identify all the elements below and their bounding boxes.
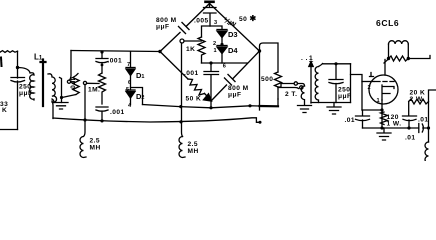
svg-text:1 W.: 1 W. [387, 121, 402, 128]
svg-text:1: 1 [377, 98, 380, 104]
wire bottom bus B [53, 118, 260, 123]
wire bus to C8 [408, 127, 419, 129]
wire shield right side [350, 64, 352, 103]
capacitor C-apex .005 [204, 8, 217, 27]
inductor RFC2 2.5MH [179, 137, 185, 158]
svg-text:5: 5 [126, 87, 129, 93]
svg-text:1M.: 1M. [88, 87, 100, 94]
svg-text:D4: D4 [228, 46, 238, 55]
wire 500 bottom continue down [277, 87, 279, 99]
transformer T1 primary winding [30, 73, 34, 100]
transformer T1 core slug [41, 60, 46, 107]
wire suppressor output [408, 56, 430, 59]
node dot bus B at x102 [100, 119, 103, 122]
wire D4 bottom [221, 54, 223, 64]
wire cathode bus [363, 127, 409, 129]
svg-text:6: 6 [128, 80, 131, 86]
parasitic suppressor resistor [389, 56, 409, 61]
resistor 1K [198, 37, 205, 63]
inductor L2 secondary [315, 64, 322, 103]
wire diamond edge left-bottom upper part [160, 52, 188, 80]
resistor 1M [99, 73, 106, 104]
svg-text:2.5: 2.5 [188, 141, 199, 148]
node apex blob [206, 0, 214, 3]
wire apex stub [209, 2, 211, 7]
wire ground vertical [60, 78, 62, 103]
node dot line A x211 [209, 106, 212, 109]
resistor 50K on edge [188, 79, 205, 95]
wire input bottom to edge [0, 129, 18, 131]
resistor 500 [275, 72, 282, 87]
diode D1 [126, 67, 135, 69]
capacitor C8 .01 [419, 124, 429, 133]
diode D2 [126, 89, 135, 91]
wire sub bus [311, 102, 351, 104]
tube V1 6CL6 envelope [369, 75, 398, 104]
svg-text:MH: MH [90, 145, 101, 152]
svg-text:470: 470 [69, 77, 76, 89]
svg-text:2 T.: 2 T. [285, 91, 297, 98]
wire cathode lead down [381, 100, 383, 128]
svg-text:. .: . . [301, 55, 308, 62]
node circle 1K input [180, 39, 184, 43]
wire grid stub into tube [362, 81, 374, 83]
tube pin3 tick [370, 73, 374, 77]
node input junction [16, 66, 19, 69]
wire jog apex-cap to D3 [210, 26, 222, 29]
wire line A [143, 105, 279, 108]
node dot cathode tap [380, 108, 383, 111]
wire diamond edge left-top with cap gap [160, 4, 210, 52]
svg-text:1: 1 [309, 55, 313, 62]
capacitor C6 .01 [356, 116, 370, 128]
node jack circle right [83, 81, 86, 84]
node jack circle left [67, 80, 70, 83]
capacitor C-edge1 800uuF [179, 23, 190, 34]
svg-text:1: 1 [214, 48, 217, 54]
wire terminal 1 arrow [310, 66, 312, 103]
parasitic suppressor coil [389, 41, 409, 44]
node dot grid wire [334, 62, 337, 65]
tube cathode structure [382, 85, 394, 100]
wire bus corner down to jack [70, 51, 72, 81]
wire 500 bottom to jack [278, 84, 294, 88]
wire plate to suppressor [384, 59, 389, 63]
wire jack lower stub [278, 88, 299, 89]
wire D1 to D2 [130, 76, 132, 91]
capacitor C-edge2 800uuF [225, 75, 236, 86]
svg-text:μμF: μμF [156, 24, 169, 31]
node dot below C2 [101, 64, 104, 67]
svg-text:6CL6: 6CL6 [376, 18, 399, 28]
svg-text:6: 6 [223, 64, 226, 70]
wire input vertical [17, 51, 19, 78]
node dot line A x180 [179, 105, 182, 108]
svg-text:3: 3 [214, 20, 217, 26]
node dot bus C2 [100, 50, 103, 53]
svg-text:.001: .001 [184, 70, 199, 77]
wire jog apex-cap to 1K [202, 26, 211, 37]
node dot screen bus [407, 126, 410, 129]
node jack circle link [300, 86, 303, 89]
svg-text:500: 500 [261, 76, 273, 83]
resistor 20K 2W [409, 99, 429, 104]
wire L2 top to grid corner [323, 63, 351, 65]
wire diamond edge right-bottom with cap gap [212, 51, 260, 101]
node dot 470 ground [60, 96, 63, 99]
resistor 120 [381, 112, 388, 125]
svg-text:μμF: μμF [338, 93, 351, 100]
svg-text:.01: .01 [418, 117, 429, 124]
ground L2 [327, 103, 341, 115]
wire D1 D2 chain top stub [130, 52, 132, 67]
wire T1 secondary bottom lead [52, 99, 54, 103]
ground link [298, 106, 312, 113]
node dot bus B at x85 [83, 118, 86, 121]
wire inner bottom horizontal [202, 62, 248, 64]
inductor RFC1 2.5MH [80, 120, 86, 158]
node dot cathode bus [380, 126, 383, 129]
wire scan remnant left edge [0, 58, 3, 67]
node dot suppressor right [407, 57, 410, 60]
svg-text:.001: .001 [108, 58, 123, 65]
svg-text:.005: .005 [194, 18, 209, 25]
wire right vertex drop [259, 51, 261, 110]
svg-text:50 ✱: 50 ✱ [239, 14, 257, 23]
svg-text:.001: .001 [110, 109, 125, 116]
node dot between D3 D4 [220, 43, 223, 46]
wire screen right corner [429, 90, 436, 142]
wire stub bus to C2 [101, 52, 103, 58]
node dot suppressor left [387, 57, 390, 60]
wire T1 secondary bottom down [52, 101, 53, 119]
ground cathode [377, 128, 391, 140]
capacitor C4 .001 [204, 72, 219, 108]
svg-text:50 K: 50 K [186, 96, 202, 103]
svg-text:7: 7 [127, 62, 130, 68]
tube grid dashes [375, 81, 394, 83]
svg-text:2 W.: 2 W. [410, 96, 425, 103]
svg-text:2: 2 [213, 41, 216, 47]
wire cathode tap left [362, 110, 382, 115]
wire wiper arrow to bottom vertex [205, 94, 207, 96]
parasitic suppressor left side [388, 44, 390, 59]
capacitor C7 .01 [403, 102, 417, 129]
wire jack tail [71, 81, 74, 83]
capacitor 250uuF input [11, 78, 25, 130]
node jack circle output [294, 82, 297, 85]
wire grid tap [351, 75, 363, 111]
svg-text:1K: 1K [186, 46, 195, 53]
inductor link 2T [301, 86, 304, 105]
ground left [54, 103, 68, 110]
tube plate lead [384, 60, 386, 76]
wire line A heavy right end [260, 105, 279, 108]
diode D4 [217, 45, 227, 47]
wire 470 bottom hook [62, 95, 76, 98]
node dot bottom right [427, 126, 430, 129]
wire jack tap to 1M [87, 82, 99, 84]
inductor RFC3 [425, 142, 429, 163]
wire right vertex jog up-right [260, 43, 279, 72]
node diamond right vertex [258, 49, 261, 52]
node dot bus B at x181 [179, 120, 182, 123]
wire circle to 1K [184, 40, 202, 42]
transformer T1 secondary winding [48, 74, 57, 103]
node diamond left vertex [158, 50, 161, 53]
svg-text:.01: .01 [405, 135, 416, 142]
wire tap between diodes to corner [131, 88, 143, 105]
parasitic suppressor right side [407, 44, 409, 59]
capacitor C2 .001 [96, 59, 108, 74]
wire drop to C4 [210, 63, 212, 71]
svg-text:MH: MH [188, 148, 199, 155]
wire jack top continue [298, 84, 305, 87]
diode D3 [217, 29, 227, 31]
wire jack down through bus to choke [84, 85, 86, 120]
svg-text:2.5: 2.5 [90, 138, 101, 145]
svg-text:.01: .01 [345, 117, 356, 124]
wire junction to T1 primary [18, 68, 31, 73]
node dot inner bottom [209, 61, 212, 64]
svg-text:D3: D3 [228, 30, 238, 39]
capacitor C3 .001 [96, 107, 108, 121]
wire input hatched stub top-left [0, 51, 18, 53]
wire vertical x181 node to choke2 [182, 43, 183, 137]
capacitor C5 250uuF [329, 64, 343, 103]
node dot bus B end [259, 121, 262, 124]
svg-text:μμF: μμF [228, 92, 241, 99]
node dot line A x250 [248, 104, 251, 107]
svg-text:μμF: μμF [19, 90, 32, 97]
svg-text:2: 2 [368, 85, 371, 91]
resistor 470 [73, 74, 79, 95]
wire line A end up tick [277, 99, 279, 106]
svg-text:K: K [2, 107, 7, 114]
wire diamond edge top-right [210, 4, 260, 52]
wire main top bus [71, 51, 160, 52]
wire D3 to D4 [221, 38, 223, 46]
wire D2 bottom to line A [130, 98, 132, 105]
